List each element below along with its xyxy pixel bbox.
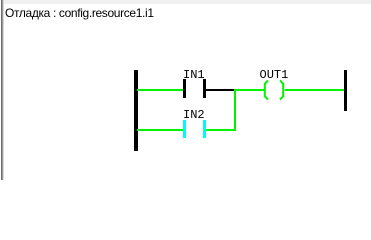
- wire: left rail to contact IN2 (row 2, green): [137, 129, 183, 131]
- right power rail: [344, 70, 348, 111]
- wire: OR junction vertical (green): [234, 89, 236, 131]
- contact IN2 (selected cyan, left bar): [183, 120, 186, 139]
- wire: IN2 to junction vertical (row 2, green): [206, 129, 236, 131]
- coil OUT1 symbol ( ): [258, 76, 290, 104]
- left pane border line: [1, 0, 2, 180]
- wire: left rail to contact IN1 (row 1, powered green): [137, 89, 183, 91]
- title text "Отладка : config.resource1.i1": [5, 7, 154, 19]
- wire: junction to coil OUT1 (green): [236, 89, 264, 91]
- wire: IN1 to junction (row 1, unpowered black): [206, 89, 234, 91]
- wire: coil OUT1 to right rail (green): [285, 89, 344, 91]
- top window edge strip: [4, 0, 371, 4]
- contact IN2 (right bar): [203, 120, 206, 139]
- contact IN1 (right bar): [203, 79, 206, 98]
- coil OUT1 right parenthesis: [280, 81, 283, 100]
- coil OUT1 left parenthesis: [265, 81, 268, 100]
- label IN2: [183, 109, 205, 121]
- label IN1: [183, 69, 205, 81]
- label OUT1: [260, 69, 289, 81]
- contact IN1 (normally open, left bar): [183, 79, 186, 98]
- left power rail: [134, 70, 138, 151]
